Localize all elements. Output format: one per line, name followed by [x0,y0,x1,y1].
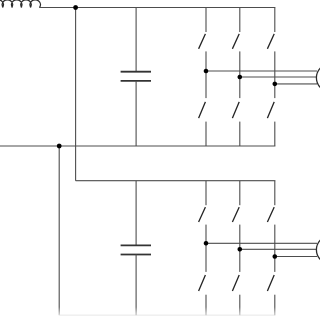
wire leg A2 midsection [205,225,207,272]
phase line A1 [206,70,317,72]
wire lower unit DC+ bus [76,180,276,182]
wire inductor to node DC+ [39,7,75,9]
switch SB1-bot blade [232,102,239,118]
phase line C1 [275,83,317,85]
node C2 dot [273,254,278,259]
wire leg B1 bottom stub [239,122,241,146]
inductor L1 (input filter coil, clipped at top-left) [0,0,40,8]
wire leg A1 bottom stub [205,122,207,146]
wire leg A1 midsection [205,51,207,98]
node DC+ junction dot [73,5,78,10]
switch SC1-top leg wire [274,8,276,33]
phase line B1 [240,76,317,78]
capacitor C1 plates [121,72,151,81]
capacitor C1 top lead [135,8,137,72]
switch SC2-bot blade [267,275,274,291]
switch SB1-top leg wire [239,8,241,33]
switch SB2-top leg wire [239,181,241,206]
node B1 dot [238,75,243,80]
node C1 dot [273,82,278,87]
motor M1 (stator circle, clipped at right) [316,64,320,92]
motor M2 (stator circle, clipped at right) [316,236,320,264]
switch SA1-top leg wire [205,8,207,33]
switch SA2-top blade [199,207,206,222]
wire left DC- vertical down [58,146,60,315]
wire leg C2 midsection [274,225,276,272]
wire leg B2 midsection [239,225,241,272]
wire lower unit DC- bus (faded) [59,314,275,316]
wire DC- return bus (top unit) [0,145,275,147]
bottom fade (figure crop) [0,307,320,320]
switch SB1-top blade [232,34,239,49]
wire leg B2 bottom stub [239,295,241,316]
switch SA2-top leg wire [205,181,207,206]
switch SA2-bot blade [199,275,206,291]
switch SA1-top blade [199,34,206,49]
capacitor C2 plates [121,245,151,254]
wire leg B1 midsection [239,51,241,98]
switch SC2-top leg wire [274,181,276,206]
node A1 dot [204,69,209,74]
switch SC2-top blade [267,207,274,222]
node A2 dot [204,241,209,246]
switch SA1-bot blade [199,102,206,118]
phase line A2 [206,242,317,244]
wire leg C2 bottom stub [274,295,276,316]
phase line B2 [240,248,317,250]
switch SC1-bot blade [267,102,274,118]
wire top DC+ bus [76,7,276,9]
wire leg C1 bottom stub [274,122,276,146]
capacitor C1 bottom lead [135,81,137,146]
wire left DC link vertical (node DC+ down to lower unit bus) [75,8,77,181]
node DC- junction dot [57,144,62,149]
capacitor C2 bottom lead [135,255,137,316]
node B2 dot [238,247,243,252]
switch SB2-bot blade [232,275,239,291]
wire leg C1 midsection [274,51,276,98]
switch SC1-top blade [267,34,274,49]
phase line C2 [275,256,317,258]
capacitor C2 top lead [135,181,137,246]
wire leg A2 bottom stub [205,295,207,316]
switch SB2-top blade [232,207,239,222]
